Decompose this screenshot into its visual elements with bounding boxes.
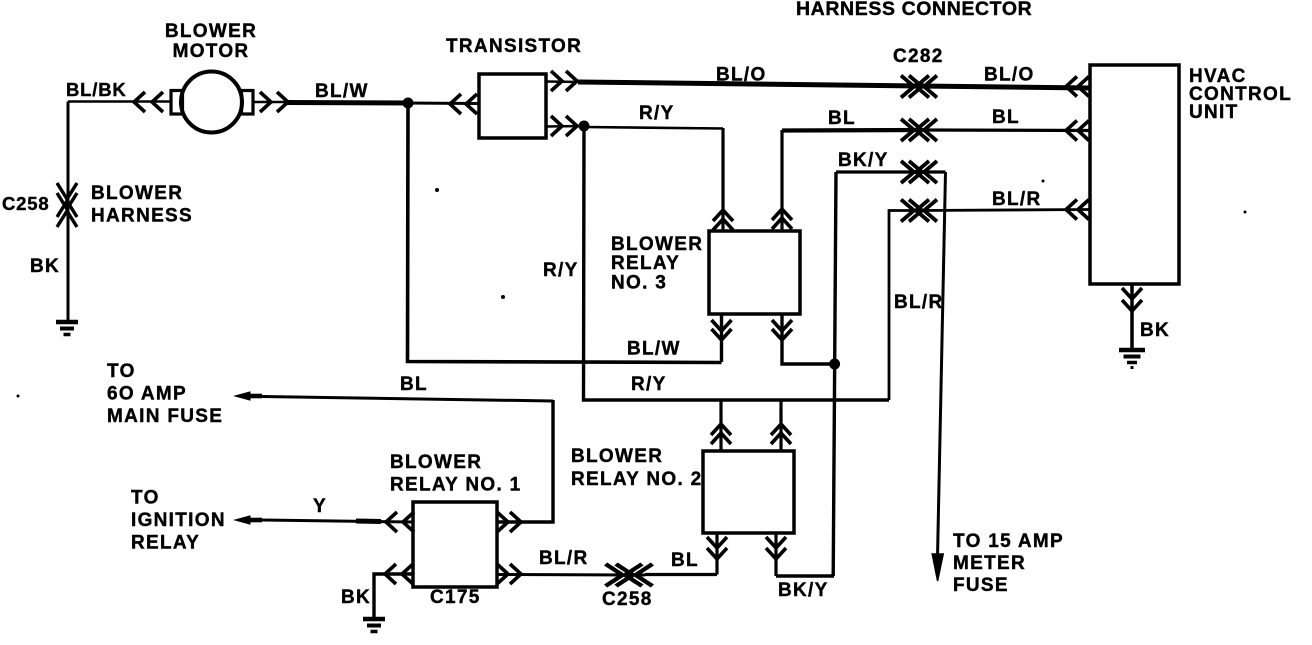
- svg-text:NO. 3: NO. 3: [611, 273, 667, 294]
- svg-text:TO 15 AMP: TO 15 AMP: [953, 531, 1064, 552]
- svg-text:TO: TO: [107, 361, 136, 382]
- svg-text:BL/O: BL/O: [984, 65, 1035, 86]
- svg-text:HARNESS: HARNESS: [91, 206, 193, 227]
- svg-text:BK/Y: BK/Y: [838, 150, 889, 171]
- svg-text:RELAY NO. 2: RELAY NO. 2: [571, 469, 703, 490]
- svg-text:BL: BL: [992, 107, 1020, 128]
- svg-text:TRANSISTOR: TRANSISTOR: [446, 36, 582, 57]
- svg-text:BL/R: BL/R: [539, 548, 589, 569]
- svg-text:BL/O: BL/O: [716, 65, 767, 86]
- svg-text:BLOWER: BLOWER: [611, 234, 703, 255]
- svg-text:BK: BK: [30, 256, 60, 277]
- svg-text:BK: BK: [341, 587, 371, 608]
- svg-text:RELAY: RELAY: [611, 253, 680, 274]
- svg-text:BL: BL: [828, 108, 856, 129]
- svg-text:BLOWER: BLOWER: [165, 21, 257, 42]
- svg-text:BL/R: BL/R: [894, 292, 944, 313]
- svg-text:BK: BK: [1140, 320, 1170, 341]
- svg-text:BL: BL: [400, 374, 428, 395]
- svg-text:R/Y: R/Y: [639, 103, 675, 124]
- svg-text:BL/W: BL/W: [315, 81, 369, 102]
- svg-text:BLOWER: BLOWER: [91, 183, 183, 204]
- svg-text:BL/BK: BL/BK: [66, 79, 127, 100]
- svg-text:6O AMP: 6O AMP: [107, 384, 187, 405]
- svg-text:RELAY: RELAY: [131, 533, 200, 554]
- svg-text:BLOWER: BLOWER: [390, 452, 482, 473]
- svg-text:R/Y: R/Y: [631, 374, 667, 395]
- svg-text:UNIT: UNIT: [1189, 102, 1239, 123]
- svg-text:C175: C175: [430, 587, 481, 608]
- svg-text:BLOWER: BLOWER: [571, 446, 663, 467]
- svg-text:BL/W: BL/W: [627, 339, 681, 360]
- svg-text:C282: C282: [893, 46, 944, 67]
- svg-text:HARNESS CONNECTOR: HARNESS CONNECTOR: [796, 0, 1032, 20]
- svg-text:BL: BL: [671, 550, 699, 571]
- svg-text:BL/R: BL/R: [992, 189, 1042, 210]
- svg-text:R/Y: R/Y: [543, 260, 579, 281]
- svg-text:C258: C258: [2, 193, 49, 214]
- svg-text:METER: METER: [953, 553, 1026, 574]
- svg-text:TO: TO: [131, 488, 160, 509]
- svg-text:C258: C258: [602, 589, 653, 610]
- svg-text:BK/Y: BK/Y: [778, 580, 829, 601]
- svg-text:RELAY NO. 1: RELAY NO. 1: [390, 475, 522, 496]
- svg-text:MAIN FUSE: MAIN FUSE: [107, 406, 223, 427]
- svg-text:FUSE: FUSE: [953, 575, 1009, 596]
- svg-text:Y: Y: [313, 496, 327, 517]
- svg-text:IGNITION: IGNITION: [131, 510, 226, 531]
- svg-text:MOTOR: MOTOR: [173, 41, 250, 62]
